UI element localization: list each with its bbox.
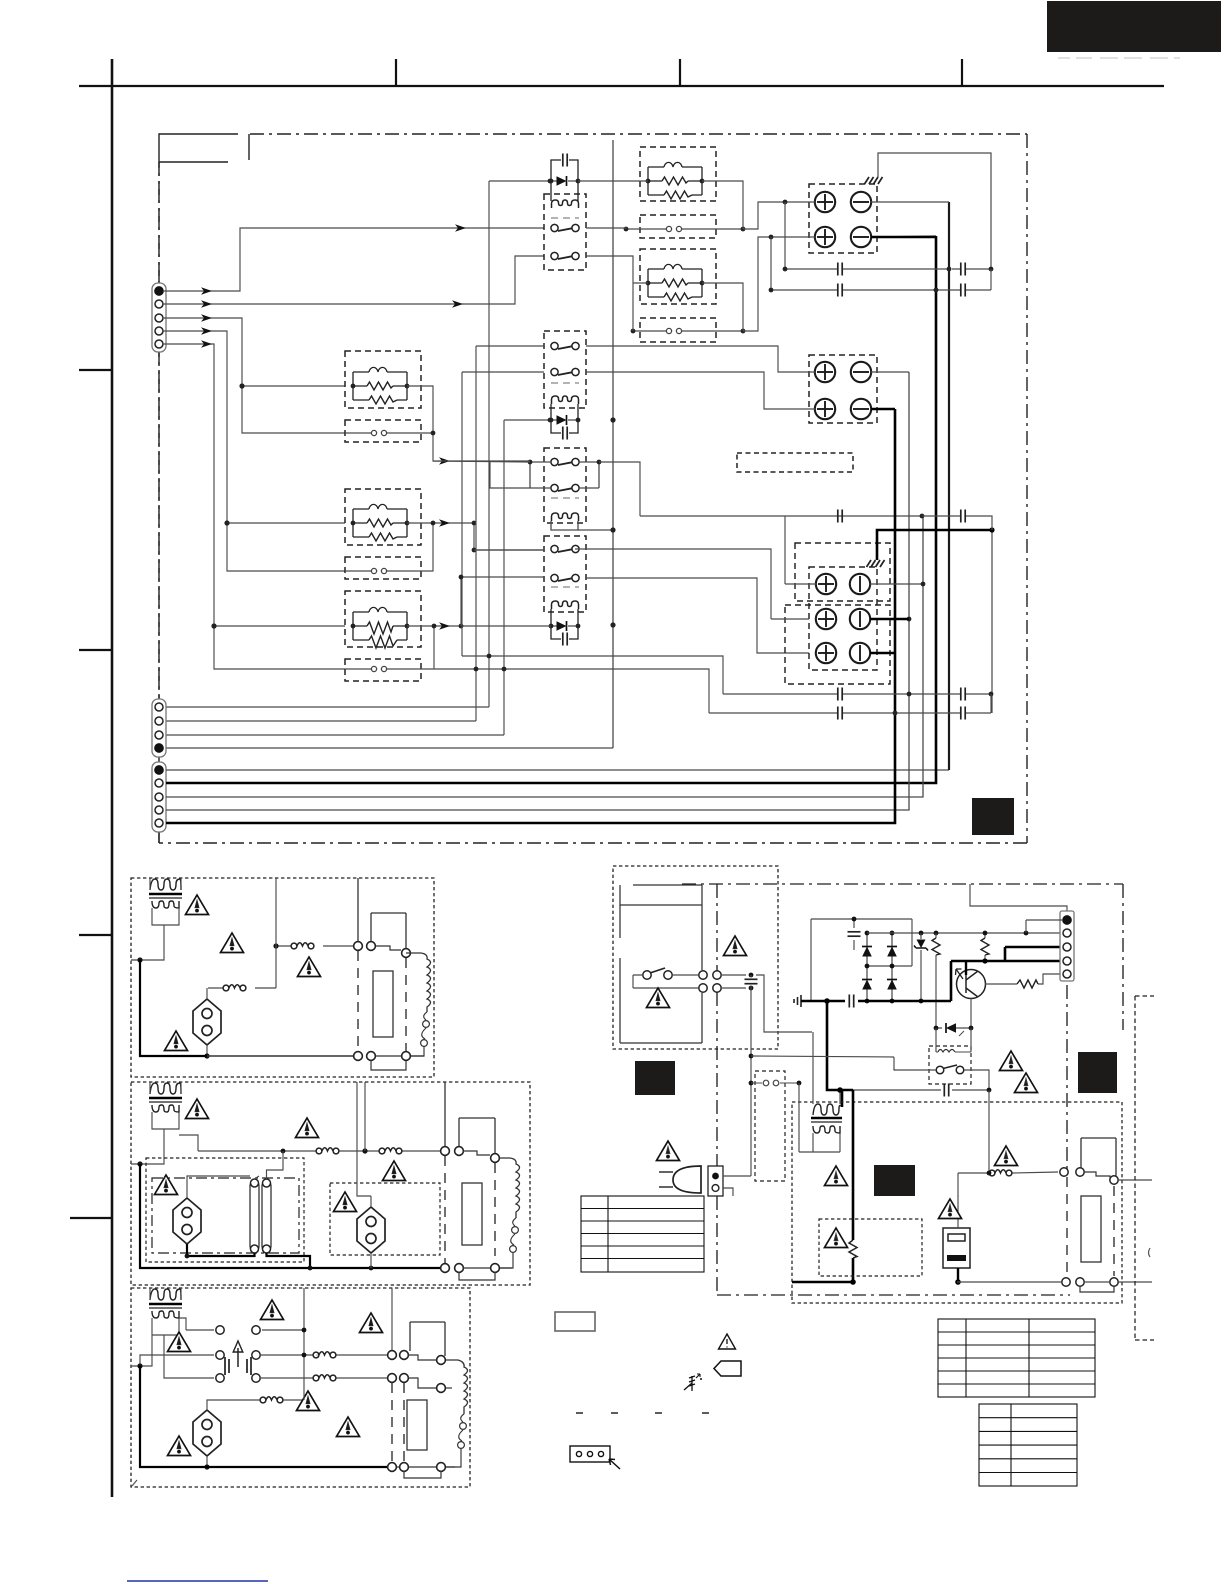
tiny transistor mark (684, 1374, 702, 1391)
jumper box J-L2 (345, 557, 421, 579)
jumper box J-L3 (345, 659, 421, 681)
network box R-L3 (345, 591, 421, 648)
warning W2-2 (296, 1118, 319, 1138)
bold left rail (140, 960, 207, 1056)
wire pin1 to relay K1 row1 (163, 228, 544, 291)
block A wires (769, 200, 949, 240)
power transformer T4 (799, 1032, 843, 1152)
top rule tick x396 (395, 59, 397, 86)
left rule (111, 59, 114, 1497)
vertical pass-through from box1 (357, 1082, 371, 1196)
top rail to pin2 (867, 932, 1063, 934)
black box PS left (635, 1061, 675, 1095)
regulator pack (943, 1173, 970, 1285)
relay RY2 module (459, 1118, 495, 1154)
black redaction box lower right of block (972, 798, 1014, 835)
block B wires (586, 346, 909, 409)
warning PS-3 (1000, 1051, 1023, 1071)
jumper box J-M2 (631, 318, 746, 342)
power switch dashed box (613, 866, 812, 1049)
small jumper dashed box (751, 1071, 801, 1181)
breaker S1 hexagon (193, 999, 221, 1045)
R-M2 wiring (586, 237, 771, 331)
transformer T3 (150, 1289, 181, 1300)
pentagon tag (714, 1361, 741, 1376)
warning W3-5 (337, 1417, 360, 1437)
warning T4 below (825, 1166, 848, 1186)
fuse F1-2 on row 988 (208, 987, 276, 989)
warning W3-3 (360, 1313, 383, 1333)
warning W3-2 (168, 1332, 191, 1352)
speaker terminal block C boxes (785, 543, 890, 684)
empty dashed label box (737, 453, 853, 472)
connector CN lower B 5-pin (152, 762, 166, 832)
warning W1-1 (186, 895, 209, 915)
earth ground left (794, 995, 801, 1007)
switch out wiring + cap (721, 975, 812, 1032)
ground above block A (865, 153, 992, 269)
power block dash-dot border (682, 884, 1123, 1295)
relay K4 (544, 536, 586, 646)
fuse row secondary (958, 1090, 1058, 1196)
smoothing cap (853, 919, 855, 950)
small open warning triangle (719, 1334, 736, 1349)
coil L2 vertical (510, 1158, 520, 1218)
row 1378 with fuse F3-2 (260, 1377, 387, 1379)
left rule tick y1218 (70, 1217, 112, 1219)
cap row y290 (769, 269, 991, 297)
wire pin3 to network L1 (163, 318, 345, 433)
output relay contacts (792, 1138, 1152, 1292)
bold rail down to transformer (827, 1001, 853, 1107)
warning at plug (657, 1141, 680, 1161)
relay RY3 module (410, 1322, 445, 1356)
verticals to lower connector (166, 707, 613, 748)
warning W3-1 (261, 1300, 284, 1320)
selector capsule contacts (220, 1334, 256, 1398)
warning W3-4 (297, 1391, 320, 1411)
black box PS mid (874, 1165, 915, 1196)
AC spec table (581, 1196, 704, 1272)
warning W2-4 (383, 1161, 406, 1181)
transformer T2 (150, 1083, 181, 1094)
inner rect RY1 (373, 971, 393, 1037)
top rule (79, 85, 1164, 87)
fuse F1-1 on row 946 (276, 945, 354, 947)
wire K3 out to cap row (599, 462, 922, 516)
bold secondary lead down (852, 1090, 855, 1282)
box2 dashed border (131, 1082, 530, 1285)
caps on row y516 (838, 510, 992, 531)
pass-through vertical (304, 1288, 392, 1400)
speaker terminal block B (809, 355, 877, 423)
block C wires (771, 514, 925, 622)
main vertical bus (610, 140, 615, 748)
connector CN upper-left 5-pin (152, 283, 166, 352)
network box R-L1 (345, 351, 421, 408)
wire pin4 to network L2 (163, 331, 345, 571)
breaker S2 hexagon (173, 1198, 201, 1244)
relay K1 (544, 154, 586, 271)
feed vertical from border top (364, 1082, 366, 1151)
T1 secondary loop (152, 908, 179, 925)
bridge rectifier (811, 917, 1063, 1028)
warning W2-3 (155, 1175, 178, 1195)
warning above regulator (939, 1199, 962, 1219)
cap row y713 (709, 694, 991, 720)
AC plug (659, 1166, 751, 1196)
T1 lead to rail (142, 925, 164, 960)
protection relay coil dashed box (751, 1028, 989, 1090)
table A 3-col (938, 1319, 1095, 1397)
network box R-M2 (640, 249, 716, 304)
cap row under relay (853, 1084, 991, 1097)
vertical feed to AC inlet (750, 988, 752, 1176)
small gray rect (555, 1312, 595, 1331)
inner dashed box 2a (146, 1158, 304, 1262)
wire pin5 to network L3 (163, 344, 345, 669)
warning W2-5 (334, 1192, 357, 1212)
box1 dashed border (131, 878, 434, 1077)
wire K4 row2 out to C3 (461, 577, 809, 653)
relay K2 (544, 331, 586, 440)
black box PS right (1078, 1052, 1117, 1093)
box2a wiring (187, 1151, 283, 1198)
transistor Q1 (956, 961, 1064, 1028)
selector open contacts row (186, 1329, 304, 1331)
bold negative rail (801, 961, 951, 1001)
resistor R-b vertical (984, 933, 986, 961)
bold rail box2 (140, 1164, 445, 1268)
feedback diode row (934, 1023, 974, 1036)
bold ground link block C (877, 530, 992, 560)
K1 snubber feed wire (489, 180, 626, 182)
bold rail box3 (140, 1366, 207, 1467)
left rule tick y650 (79, 649, 112, 651)
inner dashed box with resistor (819, 1219, 922, 1276)
R-L1 wiring to K3 (407, 386, 530, 462)
warning W1-4 (165, 1031, 188, 1051)
transformer T1 (150, 879, 181, 890)
fuse holder capsules (250, 1181, 259, 1251)
warning W3-6 (168, 1436, 191, 1456)
zener branch (920, 933, 922, 1001)
block border dash-dot (159, 134, 1027, 843)
ground in block C (867, 560, 885, 567)
network box R-L2 (345, 489, 421, 545)
connector CN-P right (970, 884, 1074, 981)
network box R-M1 (640, 147, 716, 201)
row 1355 with fuse F3-1 (260, 1354, 387, 1356)
lower rows to cap network (421, 656, 723, 713)
warning PS-1 (724, 936, 747, 956)
small 3-pin connector with arrow (570, 1446, 620, 1469)
relay K3 (528, 448, 613, 530)
stray slash mark bottom-left (132, 1480, 137, 1486)
warning PS-2 (647, 988, 670, 1008)
connector CN lower A 4-pin (152, 699, 166, 757)
cap row y694 (723, 688, 993, 701)
warning W1-2 (221, 933, 244, 953)
wire pin2 long to K1 row2 (163, 256, 544, 304)
selector up arrow (237, 1348, 239, 1367)
pass-through circles (699, 971, 707, 979)
top rule tick x680 (679, 59, 681, 86)
K3 parallel brackets (530, 462, 599, 488)
R-M1 wiring (586, 181, 785, 229)
feed vertical from border top (275, 878, 277, 988)
coil L3 vertical (446, 1360, 468, 1414)
secondary dashed box (792, 1102, 1122, 1303)
fuse row y1151 with two fuses (198, 1150, 440, 1152)
jumper box J-L1 (345, 420, 421, 442)
left rule tick y935 (79, 934, 112, 936)
bottom-left blue footer line (127, 1580, 268, 1582)
wire K2 row1 feed (476, 346, 544, 721)
coil L1 vertical (421, 953, 431, 1012)
warning W1-3 (298, 957, 321, 977)
power switch contacts (643, 971, 651, 979)
wire K3 row2 link (490, 461, 530, 488)
wire K4 row1 feed (474, 549, 771, 619)
warning RES (825, 1228, 848, 1248)
inner dashed box 2b (330, 1183, 440, 1255)
top rule tick x962 (961, 59, 963, 86)
wire K2 row2 stub (462, 181, 551, 735)
breaker S3 hexagon (357, 1207, 385, 1253)
legend tick marks (576, 1412, 709, 1414)
T1 primary leads (150, 878, 181, 890)
wire K3 row1 long feed (433, 460, 530, 462)
speaker terminal block A (809, 184, 877, 253)
cap row y269 (771, 202, 993, 584)
warning PS-4 (1015, 1073, 1038, 1093)
box3 dashed border (131, 1288, 470, 1487)
jumper box J-M1 (624, 215, 746, 238)
left dash-dot spine (158, 162, 160, 283)
hexagon S4 (193, 1410, 221, 1456)
relay RY1 module (371, 913, 406, 949)
left rule tick y370 (79, 369, 112, 371)
five bus lines from lower connector B (166, 202, 949, 823)
black title block top-right (1047, 1, 1221, 52)
warning above fuse (995, 1146, 1018, 1166)
table B 2-col (979, 1404, 1077, 1486)
R-L3 wiring to K4 snubber row (407, 626, 551, 669)
bold wires to connector pins 3-4 (951, 947, 1063, 961)
title tab top-left (159, 134, 249, 162)
R-L2 wiring (407, 523, 544, 571)
warning W2-1 (186, 1099, 209, 1119)
right partial dashed box (1135, 996, 1154, 1340)
resistor R-a vertical (935, 933, 937, 1028)
